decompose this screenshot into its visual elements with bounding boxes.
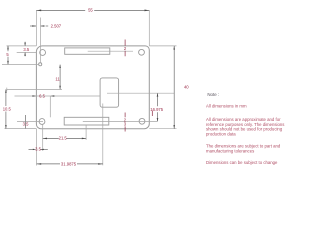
svg-text:6.5: 6.5 [39,94,45,99]
5 bottom [7,61,9,64]
bottom connector [64,117,109,125]
small fiducial circle [39,63,42,66]
3.5b2 left arrow [33,149,36,150]
ext bottom connector center down [85,125,87,140]
11 top [59,65,61,68]
board outline [36,46,149,129]
dim 16.975 line [157,93,159,106]
dim 2 top connector line [124,40,126,46]
top edge leader left [7,45,37,47]
svg-text:55: 55 [88,8,93,13]
16.975 top [157,93,159,96]
10.5 bottom [5,125,7,128]
hole TL [40,50,46,56]
ext BL hole down [42,124,44,150]
dim 3.5 bottom2 line [29,148,34,150]
bottom edge leader right [149,128,176,130]
hole TR [139,49,145,55]
top connector [65,48,110,54]
bottom edge leader left [5,128,37,130]
5 top [7,46,9,49]
55 right [145,10,150,12]
svg-text:production data: production data [206,131,236,136]
3.5b2 right arrow [40,149,43,150]
svg-text:manufacturing tolerances: manufacturing tolerances [206,149,254,154]
1.50 left arrow [32,25,36,27]
ext 1.50 to fiducial [39,18,41,63]
dim 40 line [173,46,175,129]
10.5 top [5,90,7,93]
fiducial leader [2,63,39,65]
svg-text:Note :: Note : [207,92,219,97]
dim 55 line [36,9,85,11]
svg-text:40: 40 [184,85,189,90]
dim 3.5 TL arrows [24,42,26,46]
svg-text:16.975: 16.975 [150,107,163,112]
svg-text:3.5: 3.5 [23,47,29,52]
top edge leader right [149,45,176,47]
6.5 left arrow [32,95,36,97]
svg-text:31.9875: 31.9875 [61,161,77,166]
21.5 left [43,138,47,140]
square right leader [107,92,174,94]
svg-text:2.507: 2.507 [51,24,62,29]
3.5TL lower [24,53,26,56]
hole BL [39,119,45,125]
dim 1.50 arrows [30,25,36,27]
hole BR [139,118,145,124]
31.9875 left [37,163,41,165]
16.975 bottom [157,118,159,121]
bottom connector mid leader to right [83,120,158,122]
row leader y89 [7,88,62,90]
TL hole center leader [17,51,37,53]
6.5 right arrow [51,95,55,97]
dim 21.5 line [43,137,59,139]
svg-text:10.5: 10.5 [3,107,12,112]
svg-text:3.5: 3.5 [35,147,41,152]
55 left [37,10,42,12]
ext left edge up [35,10,37,46]
svg-text:21.5: 21.5 [59,136,68,141]
svg-text:3.5: 3.5 [23,122,29,127]
ext from 6.5 down [49,96,51,117]
red ext marks right of board [151,111,153,117]
21.5 right [82,138,86,140]
svg-text:11: 11 [55,77,60,82]
1.50 right arrow [41,25,45,27]
40 bottom [173,125,175,129]
tick at row leader [6,88,8,92]
dim 3.5 bottom1 line [25,122,27,129]
dim 2/3 bottom connector line [124,113,126,118]
3.5TL upper [24,43,26,46]
center SoC square [100,78,119,107]
BL hole leader left [17,120,43,122]
dim 31.9875 line [37,163,60,165]
40 top [173,46,175,50]
dim 5 line [7,46,9,51]
top connector mid leader [88,50,133,52]
11 bottom [59,86,61,89]
ext left edge down [36,129,38,166]
svg-text:Dimensions can be subject to c: Dimensions can be subject to change [206,160,278,165]
ext right edge up [148,10,150,46]
ext square center down [102,104,104,166]
31.9875 right [98,163,102,165]
6.5 row leader [15,95,101,97]
svg-text:All dimensions in mm: All dimensions in mm [206,103,247,108]
dim 11 line [59,65,61,90]
dim 10.5 line [5,89,7,106]
